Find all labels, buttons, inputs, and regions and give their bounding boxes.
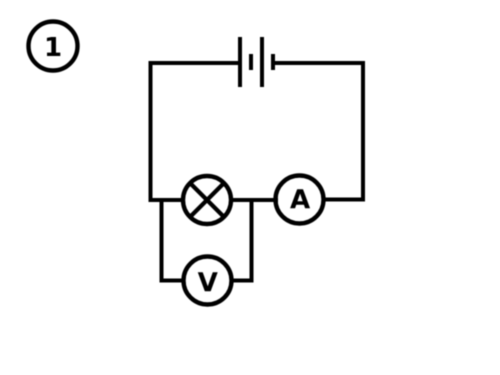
- figure label 1 (circled number): [29, 22, 78, 71]
- wire voltmeter branch left (junction down + across): [162, 198, 186, 281]
- wire from left rail to lamp: [149, 198, 186, 202]
- ammeter A: [276, 176, 324, 224]
- wire lamp to ammeter: [229, 198, 278, 202]
- battery cell plate short 2: [271, 54, 275, 70]
- lamp (indicator, circle with X): [183, 176, 231, 224]
- wire top-right segment + right vertical down to ammeter: [273, 63, 363, 200]
- voltmeter V: [184, 257, 232, 305]
- battery cell plate long 1: [238, 37, 242, 87]
- wire left vertical + top-left segment to battery: [151, 63, 241, 202]
- battery cell plate long 2: [260, 37, 264, 87]
- wire voltmeter branch right (across + up to node): [230, 198, 252, 281]
- battery cell plate short 1: [249, 54, 253, 70]
